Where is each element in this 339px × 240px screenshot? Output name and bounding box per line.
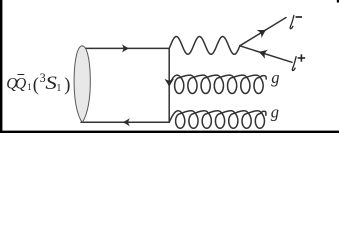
frame: left border	[0, 0, 2, 131]
svg-text:1: 1	[27, 82, 32, 92]
lepton line l+	[240, 46, 292, 63]
superscript minus of l-	[296, 16, 303, 18]
lepton label l (of l+) drawn as CM-style ell stroke	[292, 57, 296, 71]
frame: top-right corner mark	[337, 0, 339, 3]
arrow on top quark line (right)	[122, 44, 129, 52]
svg-text:1: 1	[56, 83, 61, 94]
lepton label l (of l-) drawn as CM-style ell stroke	[290, 15, 294, 28]
superscript plus of l+	[298, 54, 306, 61]
wire: top quark line	[81, 47, 169, 49]
bar over second Q	[18, 74, 25, 76]
svg-text:(: (	[33, 75, 39, 95]
gluon g2 coil	[169, 111, 266, 129]
svg-text:g: g	[271, 68, 279, 87]
wire: internal quark vertical line	[168, 48, 170, 122]
svg-text:): )	[64, 75, 70, 95]
gluon g1 coil	[169, 75, 266, 93]
svg-text:S: S	[45, 74, 57, 94]
arrow on l+ line (toward vertex, up-left)	[257, 47, 268, 59]
svg-text:Q: Q	[15, 75, 26, 92]
photon wavy line	[169, 37, 240, 55]
arrow on vertical quark line (down)	[164, 79, 174, 88]
lepton line l-	[240, 18, 286, 46]
svg-text:g: g	[271, 103, 279, 122]
frame: bottom border	[0, 131, 339, 133]
arrow on bottom quark line (left)	[122, 118, 129, 126]
blob ellipse QQbar bound state	[74, 46, 90, 123]
wire: bottom quark line	[81, 121, 169, 123]
arrow on l- line (up-right)	[257, 25, 269, 38]
